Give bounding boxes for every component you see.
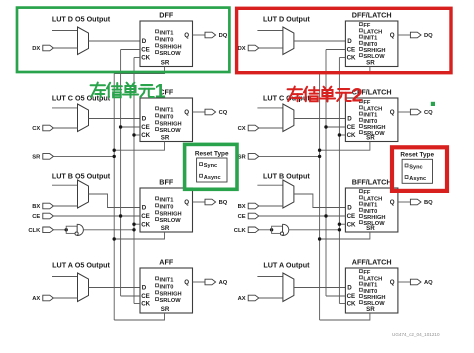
option Sync (left) [200, 163, 203, 166]
svg-text:CK: CK [347, 55, 356, 62]
node CE bus / CFF CE junction (left) [119, 125, 122, 128]
node SR bus / BFF SR junction (left) [113, 237, 116, 240]
option LATCH of DFF/LATCH [359, 29, 362, 32]
flip-flop CFF/LATCH (right) [345, 98, 398, 142]
option SRHIGH of BFF/LATCH [359, 215, 362, 218]
wire SR bus to DFF [114, 67, 164, 74]
svg-text:SRHIGH: SRHIGH [160, 291, 182, 297]
svg-text:CK: CK [347, 221, 356, 228]
clock polarity mux (left) [77, 224, 83, 235]
svg-text:SR: SR [161, 135, 170, 142]
svg-text:INIT1: INIT1 [363, 113, 377, 119]
option INIT0 of CFF [156, 114, 159, 117]
option SRHIGH of CFF [156, 121, 159, 124]
svg-text:CE: CE [238, 214, 246, 220]
option INIT0 of DFF [156, 37, 159, 40]
wire LUT B output to mux (left) [52, 184, 78, 186]
svg-text:D: D [347, 205, 352, 212]
svg-text:INIT0: INIT0 [363, 119, 377, 125]
option LATCH of AFF/LATCH [359, 276, 362, 279]
wire CK bus vertical (right) [338, 58, 340, 304]
option INIT1 of BFF/LATCH [359, 202, 362, 205]
port BQ output [205, 199, 216, 205]
flip-flop BFF (left) [140, 188, 193, 232]
svg-text:INIT1: INIT1 [363, 36, 377, 42]
svg-text:CQ: CQ [219, 110, 228, 116]
node SR bus / CFF SR junction (left) [113, 149, 116, 152]
svg-text:AFF/LATCH: AFF/LATCH [352, 258, 392, 267]
wire CE bus vertical (left) [120, 50, 122, 297]
wire Q of CFF to CQ port [193, 111, 206, 113]
wire AX to mux A [259, 297, 283, 299]
svg-text:SR: SR [366, 135, 375, 142]
option FF of BFF/LATCH [359, 190, 362, 193]
wire SR bus to BFF/LATCH [320, 232, 370, 239]
option Async (left) [200, 174, 203, 177]
svg-text:Q: Q [390, 109, 395, 116]
svg-text:LUT A O5 Output: LUT A O5 Output [52, 260, 110, 269]
svg-text:CK: CK [141, 132, 150, 139]
node SR bus / CFF SR junction (right) [318, 149, 321, 152]
svg-text:AQ: AQ [424, 280, 433, 286]
node CE bus / CFF CE junction (right) [324, 125, 327, 128]
port CLK input (right) [248, 227, 259, 233]
option SRHIGH of BFF [156, 211, 159, 214]
option INIT0 of DFF/LATCH [359, 41, 362, 44]
svg-text:SR: SR [161, 306, 170, 313]
wire CLK port to clock mux (right) [259, 229, 272, 231]
svg-text:1: 1 [155, 81, 166, 103]
wire SR port to SR bus (right) [259, 155, 320, 157]
mux A input select (left) [78, 273, 89, 302]
option SRHIGH of AFF [156, 291, 159, 294]
svg-text:CE: CE [141, 213, 150, 220]
svg-text:CE: CE [347, 293, 356, 300]
mux C input select (right) [283, 104, 294, 132]
option Async (right) [405, 176, 408, 179]
port AX input [248, 295, 259, 301]
mux C input select (left) [78, 104, 89, 132]
option INIT0 of BFF/LATCH [359, 208, 362, 211]
svg-text:UG474_c2_04_101210: UG474_c2_04_101210 [392, 332, 440, 337]
flip-flop AFF (left) [140, 268, 193, 313]
wire CK bus to BFF/LATCH [339, 223, 345, 225]
option SRLOW of DFF [156, 51, 159, 54]
svg-text:Sync: Sync [204, 163, 217, 169]
clock inverter bubble (left) [75, 232, 78, 235]
node CK bus / CLK junction (left) [132, 228, 135, 231]
svg-text:SRHIGH: SRHIGH [160, 211, 182, 217]
svg-text:SR: SR [161, 60, 170, 67]
node clock split junction (left) [65, 228, 68, 231]
port CE input (right) [248, 213, 259, 219]
wire CK bus vertical (left) [133, 58, 135, 304]
svg-text:CK: CK [141, 55, 150, 62]
svg-text:Reset Type: Reset Type [400, 152, 434, 159]
svg-text:CX: CX [32, 126, 40, 132]
option INIT0 of CFF/LATCH [359, 118, 362, 121]
svg-text:DFF: DFF [159, 11, 174, 20]
wire SR bus to AFF/LATCH [320, 313, 370, 320]
svg-text:CK: CK [141, 221, 150, 228]
svg-text:BFF/LATCH: BFF/LATCH [352, 178, 392, 187]
wire SR bus to CFF [114, 142, 164, 151]
port BX input [248, 203, 259, 209]
svg-text:SR: SR [32, 155, 41, 161]
node CK bus / CLK junction (right) [338, 228, 341, 231]
option INIT0 of AFF [156, 284, 159, 287]
svg-text:INIT0: INIT0 [363, 289, 377, 295]
wire Q of BFF/LATCH to BQ port [398, 201, 411, 203]
svg-text:LUT B O5 Output: LUT B O5 Output [52, 171, 111, 180]
annotation red rectangle around DFF/LATCH row [237, 8, 451, 72]
wire LUT A output to mux (right) [257, 276, 283, 278]
svg-text:SRHIGH: SRHIGH [363, 295, 385, 301]
wire CE port to BFF CE (left) [53, 215, 140, 217]
wire CK bus to CFF [134, 134, 140, 136]
svg-text:SRLOW: SRLOW [160, 51, 182, 57]
option SRLOW of CFF/LATCH [359, 131, 362, 134]
option FF of DFF/LATCH [359, 23, 362, 26]
svg-text:CK: CK [141, 301, 150, 308]
option SRHIGH of DFF [156, 44, 159, 47]
svg-text:CLK: CLK [234, 228, 247, 234]
svg-text:FF: FF [363, 23, 370, 29]
svg-text:SRHIGH: SRHIGH [160, 121, 182, 127]
svg-text:SRHIGH: SRHIGH [160, 44, 182, 50]
annotation red rectangle around Reset Type (right) [392, 147, 447, 191]
port DQ output [205, 32, 216, 38]
svg-text:BQ: BQ [219, 200, 228, 206]
wire SR port to SR bus (left) [53, 155, 114, 157]
svg-text:FF: FF [363, 270, 370, 276]
port CQ output [205, 109, 216, 115]
option INIT1 of BFF [156, 197, 159, 200]
mux B input select (left) [78, 180, 89, 208]
flip-flop AFF/LATCH (right) [345, 268, 398, 313]
node CK bus / CFF CK junction (left) [132, 133, 135, 136]
svg-text:INIT0: INIT0 [363, 42, 377, 48]
port BX input [43, 203, 54, 209]
svg-text:Async: Async [409, 176, 426, 182]
wire CX to mux C [53, 127, 77, 129]
option SRLOW of AFF [156, 298, 159, 301]
port CQ output [410, 109, 421, 115]
wire SR bus vertical (right) [319, 74, 321, 321]
wire CE bus to DFF/LATCH [326, 49, 345, 51]
flip-flop BFF/LATCH (right) [345, 188, 398, 232]
svg-text:CE: CE [347, 47, 356, 54]
annotation green marker square [431, 102, 435, 106]
option INIT1 of AFF/LATCH [359, 282, 362, 285]
wire mux B output to D pin (left) [89, 194, 141, 208]
clock inverter bubble (right) [280, 232, 283, 235]
port AQ output [205, 279, 216, 285]
wire CE bus to BFF/LATCH [326, 215, 345, 217]
svg-text:CE: CE [32, 214, 40, 220]
svg-text:DQ: DQ [219, 33, 228, 39]
wire CE bus to BFF [121, 215, 140, 217]
svg-text:D: D [347, 285, 352, 292]
svg-text:BX: BX [238, 204, 246, 210]
port BQ output [410, 199, 421, 205]
svg-text:LATCH: LATCH [363, 29, 382, 35]
wire CK bus to DFF [134, 57, 140, 59]
node CE bus / CE port junction (left) [119, 214, 122, 217]
wire mux B output to D pin (right) [294, 194, 346, 208]
svg-text:SR: SR [366, 225, 375, 232]
option Sync (right) [405, 164, 408, 167]
svg-text:LUT B Output: LUT B Output [263, 171, 310, 180]
option SRLOW of DFF/LATCH [359, 54, 362, 57]
wire CE port to BFF CE (right) [259, 215, 346, 217]
option LATCH of CFF/LATCH [359, 106, 362, 109]
wire BX to mux B [259, 205, 283, 207]
port CX input [248, 125, 259, 131]
option FF of AFF/LATCH [359, 270, 362, 273]
svg-text:CQ: CQ [424, 110, 433, 116]
mux D input select (right) [283, 27, 294, 55]
reset type group box (right) [402, 159, 432, 183]
svg-text:Q: Q [184, 279, 189, 286]
svg-text:DFF/LATCH: DFF/LATCH [352, 11, 392, 20]
svg-text:SRHIGH: SRHIGH [363, 125, 385, 131]
svg-text:DX: DX [32, 46, 40, 52]
port SR input (left) [43, 154, 54, 160]
annotation green rectangle around DFF row [17, 8, 229, 72]
svg-text:INIT1: INIT1 [160, 30, 174, 36]
option INIT1 of CFF/LATCH [359, 112, 362, 115]
wire LUT A output to mux (left) [52, 276, 78, 278]
svg-text:D: D [347, 38, 352, 45]
svg-text:SR: SR [238, 155, 247, 161]
wire CE bus vertical (right) [325, 50, 327, 297]
option SRHIGH of CFF/LATCH [359, 125, 362, 128]
reset type group box (left) [197, 158, 227, 182]
option INIT1 of DFF [156, 30, 159, 33]
svg-text:D: D [142, 116, 147, 123]
wire clock mux to CK bus (left) [83, 229, 134, 231]
wire mux A output to D pin (right) [294, 287, 346, 289]
svg-text:BQ: BQ [424, 200, 433, 206]
svg-text:SR: SR [161, 225, 170, 232]
svg-text:LATCH: LATCH [363, 106, 382, 112]
wire mux C output to D pin (right) [294, 118, 346, 120]
wire CK bus to AFF [134, 303, 140, 305]
svg-text:INIT1: INIT1 [160, 107, 174, 113]
svg-text:SR: SR [366, 306, 375, 313]
svg-text:SRLOW: SRLOW [160, 218, 182, 224]
wire SR bus to AFF [114, 313, 164, 320]
wire LUT C output to mux (right) [257, 107, 283, 109]
port CE input (left) [43, 213, 54, 219]
option INIT1 of AFF [156, 277, 159, 280]
wire LUT D output to mux (left) [52, 30, 78, 32]
svg-text:INIT0: INIT0 [363, 209, 377, 215]
svg-text:LATCH: LATCH [363, 276, 382, 282]
svg-text:INIT1: INIT1 [160, 277, 174, 283]
node clock split junction (right) [270, 228, 273, 231]
wire SR bus to DFF/LATCH [320, 67, 370, 74]
svg-text:SRLOW: SRLOW [160, 128, 182, 134]
annotation text 存储单元2 (red) [288, 85, 363, 107]
annotation green rectangle around Reset Type (left) [185, 144, 237, 189]
svg-text:DX: DX [238, 46, 246, 52]
wire CLK port to clock mux (left) [53, 229, 66, 231]
svg-text:D: D [347, 116, 352, 123]
svg-text:INIT0: INIT0 [160, 37, 174, 43]
wire DX to mux D [53, 47, 77, 49]
wire CK bus to CFF/LATCH [339, 134, 345, 136]
svg-text:LUT D Output: LUT D Output [263, 15, 310, 24]
svg-text:CE: CE [347, 124, 356, 131]
svg-text:INIT1: INIT1 [363, 283, 377, 289]
flip-flop DFF (left) [140, 21, 193, 67]
wire Q of AFF/LATCH to AQ port [398, 281, 411, 283]
wire CE bus to DFF [121, 49, 140, 51]
mux A input select (right) [283, 273, 294, 302]
svg-text:CE: CE [141, 293, 150, 300]
wire DX to mux D [259, 47, 283, 49]
svg-text:SR: SR [366, 60, 375, 67]
option INIT1 of CFF [156, 107, 159, 110]
svg-text:AQ: AQ [219, 280, 228, 286]
svg-text:FF: FF [363, 100, 370, 106]
wire mux D output to D pin (right) [294, 40, 346, 42]
wire mux A output to D pin (left) [89, 287, 141, 289]
wire BX to mux B [53, 205, 77, 207]
svg-text:DQ: DQ [424, 33, 433, 39]
wire LUT C output to mux (left) [52, 107, 78, 109]
option FF of CFF/LATCH [359, 100, 362, 103]
wire CE bus to AFF/LATCH [326, 295, 345, 297]
option SRLOW of CFF [156, 128, 159, 131]
wire Q of CFF/LATCH to CQ port [398, 111, 411, 113]
wire Q of AFF to AQ port [193, 281, 206, 283]
svg-text:Async: Async [204, 175, 221, 181]
node CE bus / CE port junction (right) [324, 214, 327, 217]
node SR bus / SR port junction (right) [318, 155, 321, 158]
wire CE bus to CFF [121, 126, 140, 128]
mux B input select (right) [283, 180, 294, 208]
svg-text:SRHIGH: SRHIGH [363, 48, 385, 54]
svg-text:LUT A Output: LUT A Output [263, 260, 310, 269]
port CLK input (left) [43, 227, 54, 233]
svg-text:CX: CX [238, 126, 246, 132]
wire CX to mux C [259, 127, 283, 129]
port DQ output [410, 32, 421, 38]
svg-text:INIT1: INIT1 [363, 203, 377, 209]
svg-text:Q: Q [184, 199, 189, 206]
svg-text:AX: AX [238, 296, 246, 302]
option INIT0 of BFF [156, 204, 159, 207]
wire AX to mux A [53, 297, 77, 299]
svg-text:CK: CK [347, 132, 356, 139]
port DX input [43, 45, 54, 51]
svg-text:CE: CE [141, 47, 150, 54]
option SRHIGH of AFF/LATCH [359, 295, 362, 298]
wire clock mux to CK bus (right) [289, 229, 340, 231]
svg-text:LATCH: LATCH [363, 196, 382, 202]
node CK bus / CFF CK junction (right) [338, 133, 341, 136]
node CK bus / BFF CK junction (right) [338, 223, 341, 226]
flip-flop CFF (left) [140, 98, 193, 142]
svg-text:CLK: CLK [28, 228, 41, 234]
wire LUT D output to mux (right) [257, 30, 283, 32]
option SRLOW of BFF [156, 218, 159, 221]
svg-text:2: 2 [352, 85, 363, 107]
wire Q of BFF to BQ port [193, 201, 206, 203]
svg-text:BX: BX [32, 204, 40, 210]
svg-text:LUT D O5 Output: LUT D O5 Output [52, 15, 111, 24]
annotation text 存储单元1 (green) [91, 81, 166, 103]
svg-text:Sync: Sync [409, 165, 422, 171]
port SR input (right) [248, 154, 259, 160]
svg-text:INIT0: INIT0 [160, 204, 174, 210]
svg-text:INIT1: INIT1 [160, 197, 174, 203]
svg-text:BFF: BFF [159, 178, 174, 187]
svg-text:FF: FF [363, 190, 370, 196]
wire CE bus to CFF/LATCH [326, 126, 345, 128]
svg-text:AFF: AFF [159, 258, 174, 267]
svg-text:Reset Type: Reset Type [195, 150, 229, 157]
wire CK bus to DFF/LATCH [339, 57, 345, 59]
svg-text:D: D [142, 205, 147, 212]
port DX input [248, 45, 259, 51]
port AX input [43, 295, 54, 301]
svg-text:CE: CE [347, 213, 356, 220]
option INIT0 of AFF/LATCH [359, 288, 362, 291]
svg-text:CK: CK [347, 301, 356, 308]
svg-text:Q: Q [184, 32, 189, 39]
svg-text:AX: AX [32, 296, 40, 302]
clock polarity mux (right) [283, 224, 289, 235]
port CX input [43, 125, 54, 131]
wire mux D output to D pin (left) [89, 40, 141, 42]
wire Q of DFF/LATCH to DQ port [398, 34, 411, 36]
wire Q of DFF to DQ port [193, 34, 206, 36]
svg-text:D: D [142, 38, 147, 45]
svg-text:INIT0: INIT0 [160, 114, 174, 120]
wire SR bus to BFF [114, 232, 164, 239]
option LATCH of BFF/LATCH [359, 196, 362, 199]
svg-text:SRHIGH: SRHIGH [363, 215, 385, 221]
svg-text:SRLOW: SRLOW [160, 298, 182, 304]
clock polarity paths (right) [272, 226, 283, 233]
port AQ output [410, 279, 421, 285]
mux D input select (left) [78, 27, 89, 55]
wire CK bus to BFF [134, 223, 140, 225]
option SRLOW of AFF/LATCH [359, 301, 362, 304]
option SRLOW of BFF/LATCH [359, 221, 362, 224]
node CK bus / BFF CK junction (left) [132, 223, 135, 226]
clock polarity paths (left) [66, 226, 77, 233]
svg-text:LUT C Output: LUT C Output [263, 93, 310, 102]
wire SR bus vertical (left) [113, 74, 115, 321]
svg-text:Q: Q [390, 199, 395, 206]
option SRHIGH of DFF/LATCH [359, 48, 362, 51]
wire mux C output to D pin (left) [89, 118, 141, 120]
svg-text:CE: CE [141, 124, 150, 131]
option INIT1 of DFF/LATCH [359, 35, 362, 38]
flip-flop DFF/LATCH (right) [345, 21, 398, 67]
node SR bus / SR port junction (left) [113, 155, 116, 158]
wire SR bus to CFF/LATCH [320, 142, 370, 151]
svg-text:INIT0: INIT0 [160, 284, 174, 290]
svg-text:Q: Q [390, 279, 395, 286]
wire CE bus to AFF [121, 295, 140, 297]
svg-text:D: D [142, 285, 147, 292]
